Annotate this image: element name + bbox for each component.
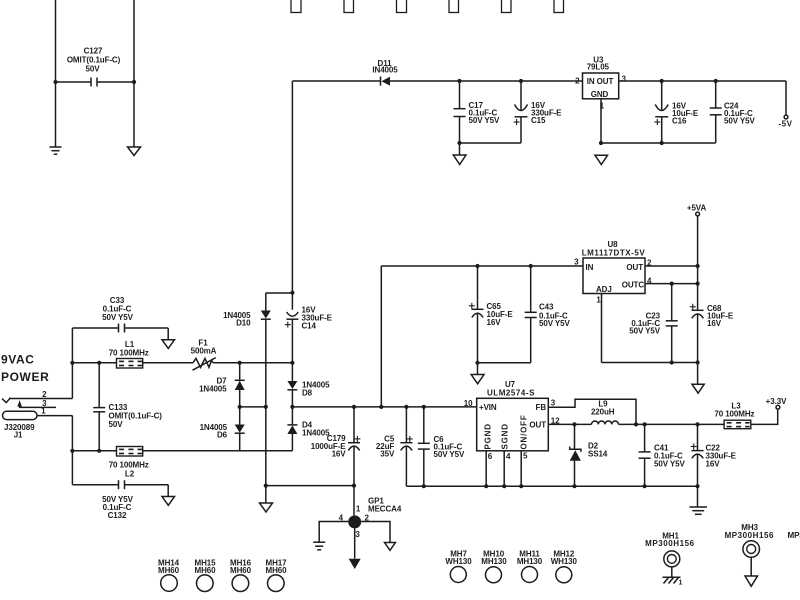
capacitor C24 (710, 81, 722, 143)
svg-text:1: 1 (356, 505, 361, 514)
label D2 (588, 441, 608, 458)
capacitor C33 (72, 324, 168, 333)
node D2 top (572, 422, 576, 426)
svg-text:1: 1 (679, 580, 683, 587)
mounting hole MH7 (445, 550, 472, 583)
label C179 value (311, 434, 347, 459)
wire U8 input rail (381, 265, 583, 267)
capacitor C132 (72, 480, 168, 489)
label D4 (302, 421, 330, 438)
diode D4 (287, 407, 297, 451)
wire U3 ground bus (601, 142, 716, 144)
mounting hole MH11 (517, 550, 543, 583)
label C24 value (724, 102, 755, 126)
mounting hole MH10 (481, 550, 507, 583)
label D8 (302, 381, 330, 398)
fuse F1 (193, 358, 216, 371)
capacitor C15 electrolytic (514, 81, 528, 143)
label C41 value (654, 444, 685, 469)
connector pin header top (291, 0, 564, 13)
svg-text:2: 2 (575, 77, 580, 86)
svg-text:50V Y5V: 50V Y5V (539, 319, 570, 328)
mounting hole MH17 (266, 559, 288, 592)
wire top rail left of D11 (292, 80, 380, 82)
label L1 (109, 340, 149, 358)
wire U8 ground bus (602, 362, 698, 364)
svg-text:GND: GND (591, 90, 609, 99)
svg-text:50V Y5V: 50V Y5V (102, 313, 133, 322)
label J1 (4, 423, 35, 440)
label C132 value (102, 495, 133, 520)
wire D7 to D10 column (240, 406, 266, 408)
ground earth under C22 (690, 486, 708, 514)
label C23 value (629, 311, 660, 335)
label L2 (109, 461, 149, 479)
label 9VAC POWER (1, 353, 49, 385)
wire L1 row left (72, 362, 116, 364)
mecca GP1 (348, 515, 361, 528)
svg-text:70 100MHz: 70 100MHz (109, 461, 149, 470)
node C17 top (457, 79, 461, 83)
node U3 gnd (599, 141, 603, 145)
svg-text:-5V: -5V (778, 120, 792, 129)
label C33 value (102, 296, 133, 322)
capacitor C179 electrolytic (348, 407, 360, 486)
svg-text:MH60: MH60 (158, 566, 180, 575)
svg-text:6: 6 (488, 452, 493, 461)
ground triangle under C17 (453, 143, 466, 165)
wire L9 to L3 (619, 423, 725, 425)
diode D10 (261, 293, 271, 407)
wire U3 gnd pin (600, 99, 602, 143)
ground triangle under U3 (595, 155, 608, 164)
node C24 top (714, 79, 718, 83)
svg-text:16V: 16V (487, 318, 502, 327)
node C14 top (290, 291, 294, 295)
svg-text:OMIT(0.1uF-C): OMIT(0.1uF-C) (67, 56, 121, 65)
capacitor C5 electrolytic (400, 407, 412, 486)
wire GP1 pin1 riser (353, 486, 355, 516)
node C179 top (352, 405, 356, 409)
label U8 (582, 240, 646, 258)
wire bridge ground to GP1 (266, 485, 354, 487)
wire F1 to bridge (213, 362, 292, 364)
terminal -5V (784, 115, 788, 119)
label L3 (714, 402, 754, 419)
node D2 bottom (572, 484, 576, 488)
svg-text:9VAC: 9VAC (1, 353, 35, 367)
svg-text:3: 3 (355, 530, 360, 539)
arrow GP1 pin3 chassis (349, 559, 361, 569)
ground triangle right of C132 (162, 485, 175, 506)
svg-text:C14: C14 (302, 322, 317, 331)
wire U7 out to L9 (548, 423, 591, 425)
svg-text:IN4005: IN4005 (372, 66, 398, 75)
svg-text:SS14: SS14 (588, 449, 608, 458)
label C127 value (67, 47, 121, 74)
svg-text:70 100MHz: 70 100MHz (714, 409, 754, 418)
wire top rail D11 to U3 (390, 80, 583, 82)
ground triangle under bridge (260, 486, 273, 512)
wire C17 C15 ground bus (460, 142, 522, 144)
svg-text:3: 3 (622, 75, 627, 84)
label C22 value (706, 444, 737, 469)
wire C65 C43 ground bus (478, 362, 531, 364)
wire raw rail (292, 406, 476, 408)
label C133 value (109, 403, 163, 429)
wire -5V drop (785, 81, 787, 115)
svg-text:MH130: MH130 (481, 557, 507, 566)
wire C127 left down (55, 82, 57, 147)
ground chassis under MH1 (663, 577, 683, 586)
node U8 outc join (696, 282, 700, 286)
node C65 bottom (475, 361, 479, 365)
svg-text:SGND: SGND (500, 423, 509, 449)
label GP1 (368, 497, 402, 514)
mounting hole MH12 (551, 550, 578, 583)
svg-text:+5VA: +5VA (687, 204, 707, 213)
label D10 (223, 311, 251, 328)
label U3 (587, 56, 610, 72)
capacitor C68 electrolytic (690, 304, 704, 363)
wire top rail U3 to -5V (619, 80, 786, 82)
svg-text:OUTC: OUTC (622, 281, 645, 290)
label D7 (199, 377, 227, 394)
svg-text:MP300H156: MP300H156 (645, 539, 694, 548)
wire U7 pgnd pin (485, 451, 487, 486)
label D6 (200, 423, 228, 440)
ground triangle GP1 right (385, 543, 396, 551)
connector J1 pin3 contact (17, 400, 22, 407)
svg-text:MH60: MH60 (266, 566, 288, 575)
svg-text:1: 1 (596, 296, 601, 305)
node C22 bottom (695, 484, 699, 488)
svg-text:MH60: MH60 (230, 566, 252, 575)
svg-text:LM1117DTX-5V: LM1117DTX-5V (582, 249, 646, 258)
node C133 bottom (97, 449, 101, 453)
svg-text:OUT: OUT (529, 420, 546, 429)
svg-text:ON/OFF: ON/OFF (519, 414, 528, 449)
node C127 right junction (132, 80, 136, 84)
wire J1 pin2 (9, 398, 72, 400)
diode D2 schottky (570, 424, 581, 486)
svg-text:70 100MHz: 70 100MHz (109, 349, 149, 358)
svg-text:IN: IN (586, 263, 594, 272)
wire U8 input riser (380, 266, 382, 407)
svg-text:FB: FB (536, 403, 547, 412)
ground triangle right of C33 (162, 328, 175, 349)
wire GP1 pin2 (361, 522, 390, 543)
mounting hole MH15 (195, 559, 217, 592)
node L1 left (70, 361, 74, 365)
svg-text:IN OUT: IN OUT (587, 77, 614, 86)
svg-text:220uH: 220uH (591, 408, 615, 417)
svg-text:C16: C16 (672, 117, 687, 126)
svg-text:C132: C132 (108, 511, 127, 520)
svg-text:500mA: 500mA (191, 347, 217, 356)
capacitor C16 electrolytic (654, 81, 668, 143)
wire AC1 bus (71, 328, 73, 399)
wire ground column (265, 407, 267, 486)
terminal +3.3V (776, 405, 780, 409)
label D11 (372, 59, 398, 75)
svg-text:50V: 50V (109, 420, 124, 429)
node U8 out (696, 264, 700, 268)
node C5 top (404, 405, 408, 409)
svg-text:50V Y5V: 50V Y5V (629, 326, 660, 335)
node C68 bottom (696, 360, 700, 364)
inductor L3 ferrite bead (724, 420, 751, 429)
node C41 top (643, 422, 647, 426)
node pgnd (484, 484, 488, 488)
node D7 bottom (238, 405, 242, 409)
svg-text:50V Y5V: 50V Y5V (724, 117, 755, 126)
mounting hole MH1 (645, 532, 694, 578)
capacitor C133 (93, 363, 105, 451)
capacitor C23 (666, 284, 678, 363)
ground triangle under C68 (692, 363, 704, 394)
svg-text:MECCA4: MECCA4 (368, 505, 402, 514)
mounting hole MH14 (158, 559, 180, 592)
node onoff (519, 484, 523, 488)
wire C127 left feed (55, 0, 57, 82)
svg-text:MH130: MH130 (517, 557, 543, 566)
wire C127 right down (133, 82, 135, 147)
capacitor C43 (525, 266, 537, 363)
ground earth GP1 left (313, 542, 325, 550)
node C179 bottom (352, 484, 356, 488)
node C16 bottom (660, 141, 664, 145)
label C14 value (302, 306, 333, 331)
ground triangle under MH3 (745, 576, 758, 586)
svg-text:ADJ: ADJ (596, 285, 612, 294)
node C23 bottom (670, 360, 674, 364)
node C16 top (660, 79, 664, 83)
capacitor C6 (418, 407, 430, 486)
label C65 value (487, 302, 514, 327)
svg-text:50V Y5V: 50V Y5V (654, 460, 685, 469)
svg-text:J1: J1 (14, 431, 23, 440)
svg-text:3: 3 (574, 258, 579, 267)
node L2 left (70, 449, 74, 453)
capacitor C22 electrolytic (691, 424, 704, 486)
inductor L2 ferrite bead (117, 447, 143, 457)
node C127 left junction (53, 80, 57, 84)
svg-text:C127: C127 (84, 47, 103, 56)
inductor L1 ferrite bead (117, 359, 143, 369)
svg-text:WH130: WH130 (445, 557, 472, 566)
svg-text:5: 5 (523, 451, 528, 460)
wire D11 riser to bridge (291, 81, 293, 293)
svg-text:OUT: OUT (626, 263, 643, 272)
node C17 bottom (457, 141, 461, 145)
capacitor C41 (639, 424, 651, 486)
svg-text:35V: 35V (380, 450, 395, 459)
wire J1 pin1 (37, 415, 72, 417)
node D10 bottom (264, 405, 268, 409)
svg-text:2: 2 (42, 390, 47, 399)
svg-text:WH130: WH130 (551, 557, 578, 566)
wire U7 onoff pin (520, 451, 522, 486)
wire AC2 bus (71, 416, 73, 485)
svg-text:C15: C15 (531, 116, 546, 125)
label C68 value (707, 304, 734, 328)
node U8 riser bottom (379, 405, 383, 409)
wire +5VA rail down (697, 216, 699, 310)
svg-text:ULM2574-S: ULM2574-S (487, 389, 535, 398)
node raw rail at D8 (290, 405, 294, 409)
svg-text:POWER: POWER (1, 370, 49, 384)
label C16 value (672, 102, 699, 126)
op-amp U3 79L05 (583, 73, 619, 99)
wire L3 to +3.3V (751, 409, 778, 424)
svg-text:MP300H156: MP300H156 (725, 531, 774, 540)
capacitor C127 (56, 78, 135, 87)
wire U8 out (645, 265, 698, 267)
mounting hole MH3 (725, 523, 774, 576)
diode D7 (235, 363, 245, 407)
ground triangle under C127 (128, 147, 141, 156)
mounting hole MH16 (230, 559, 252, 592)
svg-text:50V: 50V (86, 65, 101, 74)
inductor L9 (592, 421, 619, 424)
connector J1 pin1 sleeve (3, 411, 38, 419)
node sgnd (502, 484, 506, 488)
capacitor C17 (454, 81, 466, 143)
capacitor C14 electrolytic (285, 293, 299, 363)
node C22 top (695, 422, 699, 426)
diode D8 (287, 363, 297, 407)
regulator U7 ULM2574-S (477, 398, 549, 451)
svg-text:10: 10 (464, 399, 473, 408)
diode D11 (381, 77, 391, 86)
diode D6 (235, 407, 245, 451)
ground earth under C127 (50, 147, 62, 154)
node C133 top (97, 361, 101, 365)
wire GP1 pin4 (319, 522, 348, 542)
wire output ground bus (406, 485, 697, 487)
svg-text:PGND: PGND (483, 423, 492, 449)
svg-text:C43: C43 (539, 303, 554, 312)
wire L2 to bridge (143, 450, 293, 452)
wire U7 fb loop (548, 399, 636, 424)
svg-text:MH60: MH60 (195, 566, 217, 575)
node bridge ground (264, 484, 268, 488)
node F1 out (238, 361, 242, 365)
node AC1 at C14 (290, 361, 294, 365)
svg-text:16V: 16V (707, 319, 722, 328)
wire U8 outc (645, 283, 698, 285)
svg-text:1: 1 (41, 407, 46, 416)
svg-text:50V Y5V: 50V Y5V (469, 116, 500, 125)
wire U8 adj down (601, 294, 603, 363)
node C65 top (475, 264, 479, 268)
label C43 value (539, 303, 570, 329)
svg-text:3: 3 (551, 398, 556, 407)
svg-text:16V: 16V (706, 460, 721, 469)
wire C127 right feed (133, 0, 135, 82)
svg-text:+3.3V: +3.3V (766, 397, 787, 406)
node C43 top (529, 264, 533, 268)
svg-text:D6: D6 (217, 431, 228, 440)
svg-text:D8: D8 (302, 389, 313, 398)
label C6 value (434, 435, 465, 459)
label C15 value (531, 101, 562, 125)
wire J1 pin3 stub (19, 406, 56, 408)
wire GP1 pin3 (354, 528, 356, 558)
svg-text:1N4005: 1N4005 (199, 385, 227, 394)
svg-text:MP3: MP3 (788, 531, 800, 540)
node fb join (634, 422, 638, 426)
wire C14 node link (266, 292, 293, 294)
svg-text:L2: L2 (125, 470, 135, 479)
label U7 (487, 380, 535, 398)
label C17 value (469, 101, 500, 125)
regulator U8 LM1117DTX-5V (583, 258, 645, 294)
svg-text:D10: D10 (236, 319, 251, 328)
wire L1 to F1 (143, 362, 193, 364)
svg-text:4: 4 (506, 452, 511, 461)
capacitor C65 electrolytic (469, 266, 484, 363)
node C41 bottom (643, 484, 647, 488)
svg-text:16V: 16V (332, 450, 347, 459)
wire U7 sgnd pin (503, 451, 505, 486)
node C23 top (670, 282, 674, 286)
label L9 (591, 400, 615, 417)
ground triangle under C65 (471, 363, 484, 384)
svg-text:50V Y5V: 50V Y5V (434, 450, 465, 459)
connector J1 pin2 contact (2, 398, 11, 403)
label C5 value (376, 435, 395, 459)
node C15 top (519, 79, 523, 83)
label F1 (191, 339, 217, 356)
node C6 top (422, 405, 426, 409)
svg-text:+VIN: +VIN (479, 403, 497, 412)
terminal +5VA (696, 212, 700, 216)
wire L2 row left (72, 450, 116, 452)
node C6 bottom (422, 484, 426, 488)
svg-text:79L05: 79L05 (587, 63, 610, 72)
